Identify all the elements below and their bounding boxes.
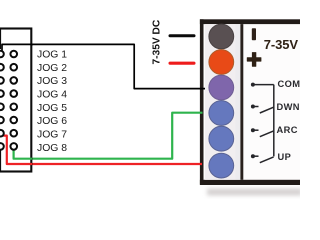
- connector J1 left edge upper segment: [0, 29, 1, 50]
- module shadow: [207, 189, 302, 196]
- wire red JOG7 to UP: [3, 136, 202, 164]
- label minus bar: [252, 28, 256, 40]
- connector J1 pin circles column 1: [0, 51, 4, 150]
- svg-text:ARC: ARC: [277, 125, 298, 135]
- module border top: [200, 19, 303, 24]
- power supply wire stub plus (red): [169, 62, 196, 65]
- switch ARC: [251, 128, 274, 137]
- svg-text:UP: UP: [278, 152, 292, 162]
- module terminal pad strip: [205, 24, 236, 180]
- module THC body: [200, 20, 302, 185]
- svg-text:7-35V DC: 7-35V DC: [152, 19, 163, 64]
- terminal 1 minus (gray): [209, 24, 234, 49]
- module border left: [200, 19, 204, 184]
- COM bus line: [273, 85, 275, 157]
- svg-text:COM: COM: [278, 79, 301, 89]
- module divider line: [240, 24, 243, 180]
- svg-text:JOG 6: JOG 6: [37, 116, 67, 127]
- terminal 5 ARC (blue): [209, 126, 234, 151]
- node COM: [251, 83, 274, 87]
- connector J1 left edge lower segment: [0, 150, 1, 172]
- svg-text:JOG 1: JOG 1: [37, 49, 67, 60]
- svg-text:JOG 5: JOG 5: [37, 103, 67, 114]
- svg-text:JOG 3: JOG 3: [37, 76, 67, 87]
- terminal 6 UP (blue): [209, 153, 234, 178]
- svg-text:JOG 2: JOG 2: [37, 63, 67, 74]
- wire black segment inside connector: [2, 44, 33, 50]
- connector J1 pin circles column 2: [10, 51, 17, 150]
- module border bottom: [200, 180, 303, 185]
- module terminal strip shading: [236, 24, 241, 180]
- svg-text:JOG 8: JOG 8: [37, 143, 67, 154]
- svg-text:JOG 7: JOG 7: [37, 130, 67, 141]
- svg-text:7-35V: 7-35V: [264, 37, 299, 52]
- switch UP: [251, 154, 274, 163]
- wire green JOG8 to DWN: [14, 113, 203, 159]
- switch DWN: [251, 105, 274, 114]
- wire red segment inside connector: [3, 136, 32, 164]
- label plus sign: [247, 52, 262, 67]
- svg-text:JOG 4: JOG 4: [37, 89, 67, 100]
- wire green segment inside connector: [14, 149, 32, 159]
- terminal 2 plus (orange): [209, 50, 234, 75]
- connector J1 pendant header body: [0, 29, 31, 172]
- terminal 3 COM (purple): [209, 75, 234, 100]
- terminal 4 DWN (blue): [209, 101, 234, 126]
- svg-text:DWN: DWN: [277, 102, 300, 112]
- power supply wire stub minus (black): [169, 34, 196, 37]
- wire black JOG1 to COM: [2, 44, 211, 88]
